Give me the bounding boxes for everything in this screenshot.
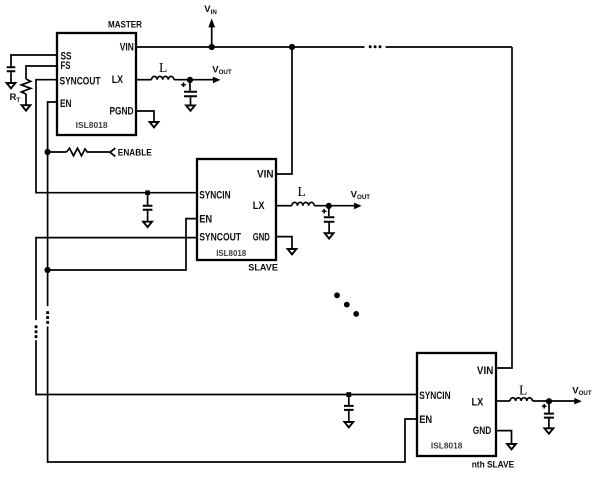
wire EN bus to slave EN xyxy=(48,219,197,270)
svg-text:GND: GND xyxy=(253,231,270,243)
node junction SYNCIN cap (slave) xyxy=(145,190,150,195)
svg-text:GND: GND xyxy=(473,425,491,437)
svg-text:PGND: PGND xyxy=(110,105,134,117)
ground (C_SS) xyxy=(7,83,16,88)
node junction output cap (nth) xyxy=(546,398,552,404)
svg-text:LX: LX xyxy=(472,396,484,408)
arrowhead V_OUT (nth) xyxy=(574,398,582,405)
ground (GND U3) xyxy=(507,444,516,449)
svg-text:SYNCIN: SYNCIN xyxy=(419,390,450,402)
node dots continuation (diagonal) xyxy=(334,292,359,316)
node junction V_IN on rail xyxy=(209,44,215,50)
plus sign C_OUT3 xyxy=(542,404,547,409)
capacitor C_OUT2 xyxy=(324,217,335,222)
inductor L2 xyxy=(292,202,314,205)
svg-text:LX: LX xyxy=(112,74,124,86)
wire C_OUT1 to ground xyxy=(190,97,192,105)
svg-text:VIN: VIN xyxy=(257,169,274,181)
svg-text:L: L xyxy=(519,383,527,398)
svg-text:EN: EN xyxy=(419,414,432,426)
wire right rail down to nth VIN xyxy=(496,47,512,368)
wire C_SYNC2 to ground xyxy=(348,411,350,422)
ground (PGND U1) xyxy=(150,122,159,127)
svg-text:ISL8018: ISL8018 xyxy=(216,248,246,258)
svg-text:SLAVE: SLAVE xyxy=(248,262,278,273)
inductor L3 xyxy=(510,398,532,401)
wire node to C_OUT1 xyxy=(189,80,191,91)
dots break on SYNCOUT bus xyxy=(35,325,38,338)
node junction slave EN on EN bus xyxy=(45,267,51,273)
wire SS pin to C_SS xyxy=(11,55,57,67)
svg-text:LX: LX xyxy=(253,200,265,212)
wire V_IN stem arrow up xyxy=(211,26,213,47)
node junction output cap (slave) xyxy=(326,203,332,209)
wire node to C_OUT3 xyxy=(548,401,550,413)
svg-text:SYNCOUT: SYNCOUT xyxy=(60,76,101,88)
dots break on EN bus xyxy=(46,311,49,324)
node junction slave VIN branch on rail xyxy=(289,44,295,50)
ground (C_SYNC1) xyxy=(143,222,152,227)
wire inductor to output node (U3) xyxy=(532,400,575,402)
wire LX (U2) to inductor xyxy=(276,205,292,207)
ground (R_T) xyxy=(22,105,31,110)
wire node to C_SYNC2 xyxy=(348,395,350,406)
wire VIN top rail xyxy=(136,46,512,48)
svg-text:T: T xyxy=(16,97,20,104)
svg-text:ENABLE: ENABLE xyxy=(118,147,152,158)
wire C_OUT3 to ground xyxy=(548,419,550,429)
inductor L1 xyxy=(152,76,174,79)
op-amp U3 ISL8018 nth SLAVE box xyxy=(417,353,496,456)
svg-text:ISL8018: ISL8018 xyxy=(431,441,463,451)
ground (C_OUT2) xyxy=(325,233,334,238)
node junction SYNCIN cap (nth) xyxy=(346,392,351,397)
wire rail to slave VIN xyxy=(276,47,292,174)
arrowhead open chevron ENABLE xyxy=(110,148,115,156)
wire EN bus to ENABLE resistor xyxy=(48,151,67,153)
svg-text:MASTER: MASTER xyxy=(108,20,142,31)
wire inductor to output node xyxy=(174,79,214,81)
svg-text:VIN: VIN xyxy=(120,41,134,53)
arrowhead V_OUT (slave) xyxy=(354,203,362,210)
arrowhead V_IN xyxy=(208,18,215,27)
node junction output cap (master) xyxy=(187,77,193,83)
plus sign C_OUT1 xyxy=(181,82,186,87)
svg-text:L: L xyxy=(159,60,167,75)
svg-text:EN: EN xyxy=(60,98,72,110)
plus sign C_OUT2 xyxy=(322,209,327,214)
resistor R_T xyxy=(21,79,30,94)
wire GND (U3) to ground xyxy=(496,431,512,444)
svg-text:OUT: OUT xyxy=(357,194,370,201)
capacitor C_OUT1 xyxy=(184,92,197,97)
resistor R_EN (ENABLE) xyxy=(67,148,110,156)
svg-text:FS: FS xyxy=(61,60,71,72)
ground (C_OUT3) xyxy=(545,428,554,433)
ground (GND U2) xyxy=(288,249,297,254)
wire LX (U1) to inductor xyxy=(136,79,152,81)
wire SYNCOUT (U2) down to nth SYNCIN xyxy=(36,238,417,395)
svg-text:VIN: VIN xyxy=(477,365,494,377)
svg-text:IN: IN xyxy=(211,9,218,16)
capacitor C_OUT3 xyxy=(544,414,554,418)
capacitor C_SYNC2 xyxy=(344,406,354,410)
svg-text:SYNCOUT: SYNCOUT xyxy=(199,231,241,243)
ground (C_OUT1) xyxy=(186,105,195,110)
svg-text:OUT: OUT xyxy=(579,390,592,397)
node dots break on top rail xyxy=(369,45,382,48)
wire C_OUT2 to ground xyxy=(328,223,330,234)
svg-text:EN: EN xyxy=(199,214,212,226)
wire node to C_OUT2 xyxy=(328,206,330,216)
wire C_SYNC1 to ground xyxy=(147,211,149,222)
wire SYNCOUT (U1) down to slave SYNCIN xyxy=(36,80,197,193)
wire R_T to ground xyxy=(25,94,27,105)
svg-text:OUT: OUT xyxy=(219,69,232,76)
node junction ENABLE on EN bus xyxy=(45,149,51,155)
wire GND (U2) to ground xyxy=(276,237,292,249)
capacitor C_SYNC1 xyxy=(143,206,153,210)
op-amp U1 ISL8018 MASTER box xyxy=(57,33,136,135)
svg-text:ISL8018: ISL8018 xyxy=(76,120,108,130)
svg-text:L: L xyxy=(298,184,306,199)
svg-text:nth SLAVE: nth SLAVE xyxy=(472,460,515,471)
svg-text:SYNCIN: SYNCIN xyxy=(199,190,230,202)
wire FS pin to R_T xyxy=(26,66,57,79)
wire C_SS to ground xyxy=(10,72,12,83)
wire EN bus lower section to bottom rail xyxy=(48,326,417,462)
wire node to C_SYNC1 xyxy=(147,193,149,205)
wire LX (U3) to inductor xyxy=(496,400,510,402)
capacitor C_SS xyxy=(7,67,16,71)
ground (C_SYNC2) xyxy=(344,422,353,427)
op-amp U2 ISL8018 SLAVE box xyxy=(197,159,276,260)
arrowhead V_OUT (master) xyxy=(213,77,221,84)
wire inductor to output node (U2) xyxy=(314,205,355,207)
wire PGND to ground xyxy=(136,111,154,122)
wire EN (U1) down the EN bus xyxy=(48,102,57,306)
